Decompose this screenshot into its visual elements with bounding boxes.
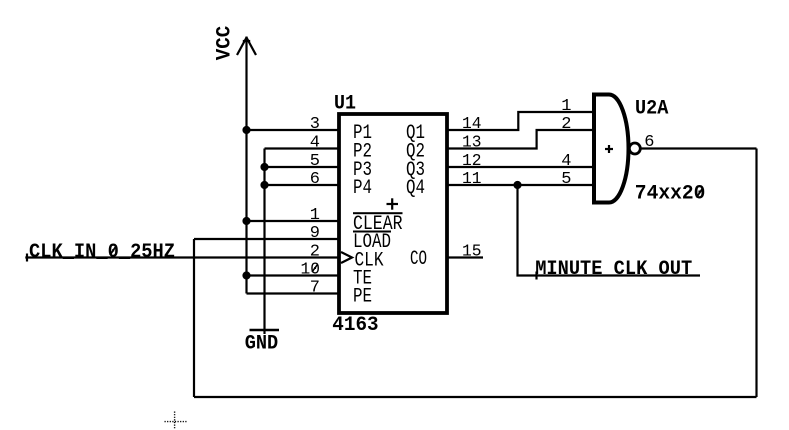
wire TE bbox=[247, 274, 340, 276]
gate U2A body bbox=[594, 95, 629, 203]
junction at P4/GND bbox=[260, 181, 268, 189]
wire Q4 to gate pin 5 bbox=[447, 184, 594, 186]
svg-text:PE: PE bbox=[353, 285, 372, 308]
svg-text:6: 6 bbox=[310, 170, 320, 189]
sheet origin crosshair bbox=[165, 412, 187, 430]
clock input triangle pin 2 bbox=[341, 252, 352, 263]
svg-text:CLK_IN_0_25HZ: CLK_IN_0_25HZ bbox=[29, 241, 175, 264]
wire feedback right vertical bbox=[755, 149, 757, 398]
wire P4 bbox=[265, 184, 340, 186]
overline LOAD bbox=[353, 231, 391, 233]
svg-text:1: 1 bbox=[561, 97, 571, 116]
svg-text:U2A: U2A bbox=[635, 98, 669, 121]
wire Q1 to gate pin 1 bbox=[447, 112, 594, 130]
svg-text:2: 2 bbox=[310, 243, 320, 262]
svg-text:7: 7 bbox=[310, 279, 320, 298]
gate U2A output bubble bbox=[629, 143, 640, 154]
wire VCC bus vertical bbox=[245, 37, 247, 294]
ground bbox=[250, 329, 280, 332]
wire MINUTE label tick bbox=[535, 272, 537, 280]
svg-text:VCC: VCC bbox=[214, 26, 237, 60]
svg-text:4: 4 bbox=[310, 134, 320, 153]
wire LOAD bbox=[194, 238, 339, 240]
svg-text:4: 4 bbox=[561, 152, 571, 171]
svg-text:9: 9 bbox=[310, 224, 320, 243]
svg-text:P4: P4 bbox=[353, 177, 372, 200]
wire MINUTE_CLK_OUT bbox=[518, 185, 701, 276]
gate U2A plus mark bbox=[605, 145, 613, 153]
svg-text:3: 3 bbox=[310, 115, 320, 134]
wire CO stub pin 15 bbox=[447, 256, 483, 258]
svg-text:12: 12 bbox=[462, 152, 482, 171]
wire GND bus vertical bbox=[263, 149, 265, 335]
junction at TE/VCC bbox=[242, 271, 250, 279]
wire U2A output bbox=[641, 147, 757, 149]
overline CLEAR bbox=[353, 212, 403, 214]
slashed zero in pin number 10 bbox=[312, 265, 318, 273]
svg-text:Q4: Q4 bbox=[406, 177, 425, 200]
svg-text:CO: CO bbox=[410, 248, 427, 271]
svg-text:5: 5 bbox=[561, 170, 571, 189]
power symbol VCC bbox=[237, 38, 256, 56]
junction at P3/GND bbox=[260, 163, 268, 171]
svg-text:11: 11 bbox=[462, 170, 482, 189]
wire CLK_IN bbox=[25, 256, 339, 258]
IC U1 plus mark bbox=[387, 198, 399, 209]
wire P1 bbox=[247, 129, 340, 131]
wire Q3 to gate pin 4 bbox=[447, 166, 594, 168]
wire CLEAR bbox=[247, 220, 340, 222]
svg-text:GND: GND bbox=[245, 332, 279, 355]
wire P2 bbox=[265, 147, 340, 149]
junction at CLEAR/VCC bbox=[242, 217, 250, 225]
wire feedback bottom bbox=[194, 396, 757, 398]
svg-text:15: 15 bbox=[462, 243, 482, 262]
wire P3 bbox=[265, 166, 340, 168]
wire CLK_IN end tick bbox=[26, 254, 28, 262]
wire PE bbox=[247, 292, 340, 294]
svg-text:MINUTE_CLK_OUT: MINUTE_CLK_OUT bbox=[535, 258, 692, 281]
wire Q2 to gate pin 2 bbox=[447, 130, 594, 149]
IC U1 box bbox=[339, 114, 447, 313]
svg-text:2: 2 bbox=[561, 115, 571, 134]
junction at P1/VCC bbox=[242, 126, 250, 134]
svg-text:13: 13 bbox=[462, 134, 482, 153]
svg-text:1: 1 bbox=[310, 206, 320, 225]
svg-text:10: 10 bbox=[301, 261, 321, 280]
slashed zero in 74xx20 bbox=[697, 188, 703, 198]
svg-text:4163: 4163 bbox=[332, 314, 378, 337]
svg-text:5: 5 bbox=[310, 152, 320, 171]
junction at Q4/output node bbox=[513, 181, 521, 189]
svg-text:14: 14 bbox=[462, 115, 482, 134]
slashed zero in CLK_IN_0_25HZ bbox=[110, 246, 117, 256]
svg-text:74xx20: 74xx20 bbox=[635, 183, 706, 206]
wire feedback left vertical bbox=[193, 239, 195, 397]
svg-text:6: 6 bbox=[644, 133, 654, 152]
svg-text:U1: U1 bbox=[334, 92, 356, 115]
